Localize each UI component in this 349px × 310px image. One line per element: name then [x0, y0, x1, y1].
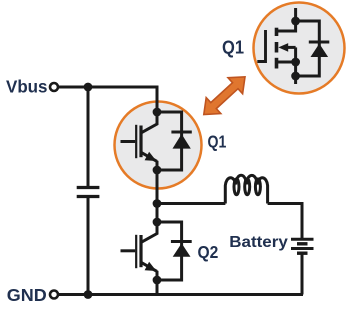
junction Q1 emitter node — [153, 166, 162, 175]
diode D1 antiparallel with Q1 — [157, 112, 192, 170]
junction on Vbus rail — [84, 83, 93, 92]
wire phase node to inductor — [157, 202, 225, 205]
svg-text:Battery: Battery — [229, 234, 288, 251]
wire phase node to Q2 — [156, 204, 159, 223]
battery BT1 — [291, 239, 314, 253]
arrow zoom indicator — [204, 77, 245, 115]
wire Vbus rail — [59, 87, 158, 112]
svg-text:Q1: Q1 — [208, 132, 227, 152]
inductor L1 — [225, 175, 267, 203]
junction Q1 collector node — [153, 108, 162, 117]
wire GND rail — [59, 293, 304, 296]
junction Q2 collector node — [153, 218, 162, 227]
transistor Q2 IGBT — [121, 222, 158, 280]
capacitor C1 — [77, 188, 100, 197]
svg-text:GND: GND — [7, 285, 47, 305]
junction drain node detail — [291, 17, 300, 26]
transistor Q1 IGBT — [121, 112, 158, 170]
svg-text:Q2: Q2 — [198, 242, 219, 262]
wire battery to GND rail — [301, 253, 304, 294]
node Vbus terminal — [50, 83, 58, 91]
svg-text:Q1: Q1 — [222, 37, 244, 57]
wire Q1 emitter to phase node — [156, 170, 159, 204]
svg-text:Vbus: Vbus — [6, 77, 48, 97]
junction Q2 emitter node — [153, 276, 162, 285]
wire capacitor branch lower — [87, 197, 90, 295]
node GND terminal — [50, 291, 58, 299]
wire inductor to battery — [268, 204, 302, 240]
junction source node detail — [291, 58, 300, 67]
diode body diode detail — [296, 21, 330, 76]
wire Q2 emitter to GND rail — [156, 280, 159, 295]
diode D2 antiparallel with Q2 — [157, 222, 192, 280]
wire capacitor branch upper — [87, 87, 90, 188]
junction phase node — [153, 199, 162, 208]
zoom detail circle — [254, 3, 345, 94]
transistor Q1 MOSFET detail — [257, 8, 295, 84]
junction bottom node detail — [291, 72, 300, 81]
junction on GND rail — [84, 290, 93, 299]
highlight circle around Q1 — [115, 102, 202, 189]
